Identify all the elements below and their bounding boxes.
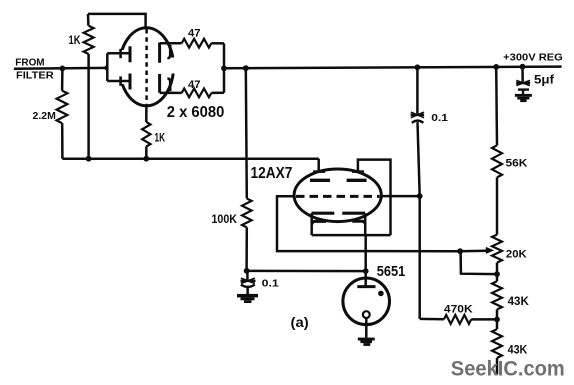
svg-text:43K: 43K (508, 296, 530, 308)
svg-text:SeekIC.com: SeekIC.com (451, 357, 565, 381)
svg-text:(a): (a) (291, 315, 309, 330)
node pot bottom (494, 271, 500, 277)
wire C1 junction down to 470K (418, 196, 421, 319)
wire V1 grid riser (106, 53, 109, 81)
svg-text:2 x 6080: 2 x 6080 (167, 104, 225, 121)
wire V2 left plate lead from bottom line (317, 159, 320, 173)
pot tap arrow (460, 247, 494, 254)
wire FROM FILTER input (14, 67, 107, 70)
wire V2 right plate lead (358, 160, 391, 236)
node right grid junction (417, 193, 423, 199)
V1 left upper grid lead (107, 46, 130, 62)
V2 left top element (310, 172, 330, 181)
V1 left lower grid lead (107, 74, 130, 90)
capacitor C2 5uf (516, 67, 530, 94)
svg-text:47: 47 (188, 28, 201, 40)
tube V3 5651 envelope (343, 278, 390, 325)
wire V2 left grid to divider tap (277, 196, 460, 251)
wire V3 cathode to ground (365, 318, 368, 338)
resistor R2 2.2M (57, 68, 68, 158)
node R1 to bottom line (86, 156, 92, 162)
resistor R7 56K (492, 67, 502, 235)
resistor R8 20K pot (492, 235, 502, 282)
wire top rail to V1 top pin (88, 14, 146, 30)
wire bottom feedback line (62, 157, 318, 160)
resistor R11 43K (lower) (492, 329, 502, 374)
capacitor C1 0.1 (top) (411, 67, 425, 196)
V1 right lower plate bar and lead (160, 74, 182, 93)
node V1 output (221, 65, 227, 71)
node 100K / C3 junction (244, 268, 250, 274)
envelope gaps (erasers) (108, 50, 181, 84)
node 43K junction (494, 309, 500, 329)
svg-text:47: 47 (188, 79, 201, 91)
svg-text:43K: 43K (508, 344, 528, 356)
resistor R6 100K (242, 68, 252, 271)
resistor R1 1K (upper left) (84, 14, 94, 159)
svg-text:0.1: 0.1 (262, 278, 279, 290)
ground below C3 (237, 294, 258, 303)
V2 grid dashed line (296, 195, 380, 198)
V2 right bottom element (342, 213, 365, 235)
wire tap short to pot bottom (461, 251, 497, 274)
V3 anode bar (357, 285, 375, 288)
svg-text:FILTER: FILTER (16, 71, 54, 82)
wire main B+ line (224, 67, 562, 69)
node to 5uf (520, 64, 526, 70)
svg-text:0.1: 0.1 (431, 112, 448, 124)
svg-text:1K: 1K (69, 33, 81, 47)
resistor R5 47 (lower) (182, 89, 224, 98)
node tap wire (457, 248, 463, 254)
V3 cathode circle (363, 311, 370, 318)
node to 100K (243, 65, 249, 71)
wire 47s output bus (223, 43, 226, 92)
V2 right top element (347, 172, 367, 181)
node to 56K (493, 64, 499, 70)
resistor R3 1K (below V1) (142, 106, 150, 159)
V3 gas dot (378, 291, 384, 297)
wire V2 cathode down to V3 (364, 235, 367, 286)
node grid junction V1 (104, 65, 110, 71)
svg-text:2.2M: 2.2M (33, 110, 57, 122)
svg-text:5651: 5651 (377, 263, 406, 280)
V1 right upper plate bar and lead (160, 43, 182, 63)
ground below V3 (358, 338, 375, 346)
node to C1 0.1 (415, 64, 421, 70)
wire junction to V3 top (247, 270, 366, 273)
wire V2 cathode box bottom (312, 234, 391, 237)
svg-text:470K: 470K (444, 303, 473, 315)
op tube V2 12AX7 envelope (294, 169, 381, 222)
svg-text:56K: 56K (506, 158, 528, 170)
svg-text:12AX7: 12AX7 (251, 165, 293, 182)
resistor R9 43K (upper) (492, 281, 502, 309)
svg-text:+300V REG: +300V REG (503, 52, 563, 63)
wire V2 right grid to C1 line (381, 195, 419, 198)
node at V3 wire (363, 268, 369, 274)
svg-text:20K: 20K (506, 248, 527, 260)
resistor R4 47 (upper) (182, 39, 224, 48)
V2 left bottom element (312, 213, 335, 235)
svg-text:FROM: FROM (15, 57, 44, 68)
resistor R10 470K (420, 315, 497, 324)
svg-text:100K: 100K (212, 212, 238, 226)
svg-text:1K: 1K (155, 130, 166, 144)
ground below C2 (515, 94, 532, 102)
node input junction to 2.2M (60, 66, 66, 72)
V1 center dashed divider (145, 29, 148, 106)
node R3 to bottom line (143, 156, 149, 162)
svg-text:5μf: 5μf (534, 75, 554, 87)
capacitor C3 0.1 (241, 271, 256, 294)
op tube V1 2x6080 envelope (120, 28, 174, 106)
